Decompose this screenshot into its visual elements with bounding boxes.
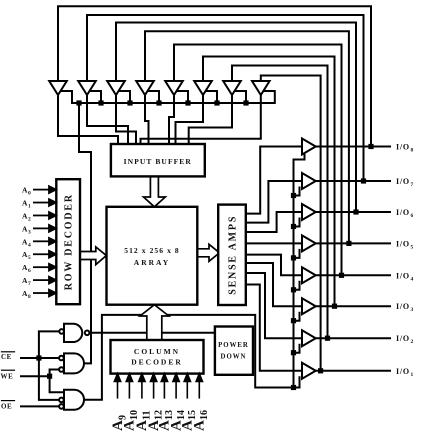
svg-text:ARRAY: ARRAY xyxy=(134,258,170,267)
svg-text:0: 0 xyxy=(28,191,32,197)
svg-text:4: 4 xyxy=(28,242,32,248)
svg-text:DECODER: DECODER xyxy=(131,358,183,367)
svg-text:5: 5 xyxy=(28,255,32,261)
svg-text:OE: OE xyxy=(1,403,12,411)
svg-text:WE: WE xyxy=(1,372,14,380)
svg-text:6: 6 xyxy=(411,213,415,219)
svg-text:I/O: I/O xyxy=(396,208,410,217)
svg-text:8: 8 xyxy=(411,148,415,154)
svg-text:1: 1 xyxy=(411,372,415,378)
svg-text:3: 3 xyxy=(411,307,415,313)
svg-text:COLUMN: COLUMN xyxy=(134,347,180,356)
svg-text:POWER: POWER xyxy=(218,342,249,349)
svg-text:A: A xyxy=(192,420,208,431)
svg-text:15: 15 xyxy=(187,410,198,420)
svg-text:I/O: I/O xyxy=(396,143,410,152)
svg-text:9: 9 xyxy=(117,415,128,420)
svg-text:4: 4 xyxy=(411,276,415,282)
svg-text:16: 16 xyxy=(199,410,210,420)
svg-text:SENSE AMPS: SENSE AMPS xyxy=(228,215,239,295)
svg-text:8: 8 xyxy=(28,294,32,300)
svg-text:I/O: I/O xyxy=(396,239,410,248)
svg-text:ROW DECODER: ROW DECODER xyxy=(64,193,75,290)
svg-text:10: 10 xyxy=(129,410,140,420)
svg-text:512 x 256 x 8: 512 x 256 x 8 xyxy=(124,246,180,255)
svg-text:3: 3 xyxy=(28,229,32,235)
svg-text:5: 5 xyxy=(411,244,415,250)
svg-text:13: 13 xyxy=(164,410,175,420)
svg-text:INPUT BUFFER: INPUT BUFFER xyxy=(124,157,192,166)
svg-text:I/O: I/O xyxy=(396,302,410,311)
svg-text:11: 11 xyxy=(142,411,153,420)
svg-text:CE: CE xyxy=(1,353,12,361)
svg-text:7: 7 xyxy=(411,182,415,188)
svg-text:1: 1 xyxy=(28,204,32,210)
svg-text:2: 2 xyxy=(411,339,415,345)
svg-text:I/O: I/O xyxy=(396,177,410,186)
svg-text:14: 14 xyxy=(176,410,187,420)
svg-text:I/O: I/O xyxy=(396,271,410,280)
svg-text:7: 7 xyxy=(28,281,32,287)
svg-text:I/O: I/O xyxy=(396,367,410,376)
svg-text:12: 12 xyxy=(153,410,164,420)
svg-text:6: 6 xyxy=(28,268,32,274)
svg-text:I/O: I/O xyxy=(396,334,410,343)
svg-text:DOWN: DOWN xyxy=(221,354,247,361)
svg-text:2: 2 xyxy=(28,217,32,223)
